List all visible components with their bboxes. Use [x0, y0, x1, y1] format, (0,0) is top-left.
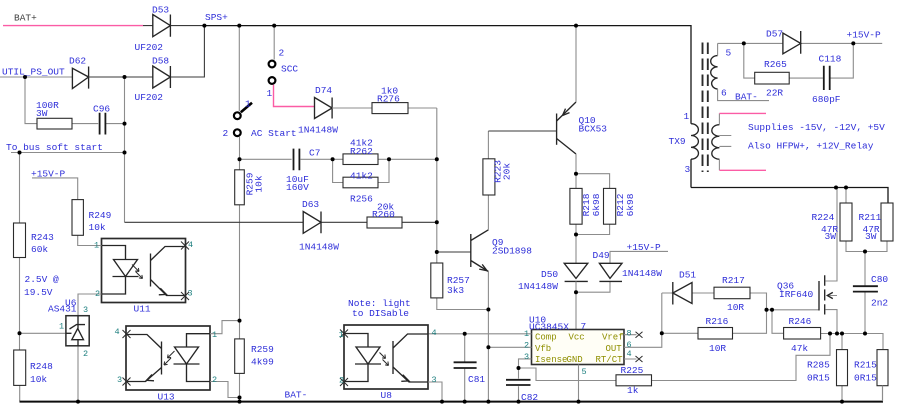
svg-text:1N4148W: 1N4148W	[518, 281, 558, 292]
svg-text:UF202: UF202	[135, 92, 164, 103]
svg-text:R211: R211	[859, 212, 882, 223]
svg-text:BAT+: BAT+	[14, 13, 37, 24]
svg-text:BCX53: BCX53	[579, 124, 608, 135]
svg-text:4: 4	[188, 240, 193, 250]
svg-text:3: 3	[685, 164, 691, 175]
svg-text:1: 1	[59, 322, 64, 332]
svg-text:2: 2	[279, 48, 285, 59]
svg-text:3: 3	[432, 375, 437, 385]
svg-text:6k98: 6k98	[625, 193, 636, 216]
svg-text:AS431: AS431	[48, 304, 77, 315]
svg-text:U8: U8	[381, 390, 393, 401]
svg-text:C7: C7	[309, 148, 320, 159]
svg-text:D49: D49	[593, 250, 610, 261]
svg-text:20k: 20k	[502, 163, 513, 180]
svg-text:D63: D63	[302, 199, 319, 210]
svg-text:UC3845X: UC3845X	[529, 322, 569, 333]
svg-text:1: 1	[267, 88, 273, 99]
svg-text:R249: R249	[89, 210, 112, 221]
svg-text:D62: D62	[69, 56, 86, 67]
svg-text:8: 8	[627, 329, 632, 339]
svg-text:Isense: Isense	[535, 355, 567, 365]
svg-text:C82: C82	[521, 392, 538, 403]
svg-text:U13: U13	[158, 392, 175, 403]
svg-text:60k: 60k	[31, 244, 48, 255]
svg-text:2.5V @: 2.5V @	[25, 274, 60, 285]
svg-text:4: 4	[115, 327, 120, 337]
svg-text:1: 1	[339, 330, 344, 340]
svg-text:UTIL_PS_OUT: UTIL_PS_OUT	[2, 67, 65, 78]
svg-text:D58: D58	[152, 56, 169, 67]
svg-text:R243: R243	[31, 232, 54, 243]
svg-text:0R15: 0R15	[854, 373, 877, 384]
svg-text:5: 5	[582, 367, 587, 377]
svg-text:IRF640: IRF640	[779, 289, 814, 300]
svg-text:D50: D50	[541, 269, 558, 280]
svg-text:D51: D51	[679, 270, 696, 281]
svg-text:+15V-P: +15V-P	[31, 169, 66, 180]
svg-text:6k98: 6k98	[591, 193, 602, 216]
svg-text:R276: R276	[377, 94, 400, 105]
svg-text:RT/CT: RT/CT	[596, 355, 624, 365]
svg-text:2: 2	[223, 128, 229, 139]
svg-text:2: 2	[339, 376, 344, 386]
svg-text:22R: 22R	[766, 88, 783, 99]
svg-text:C81: C81	[468, 374, 485, 385]
svg-text:R260: R260	[372, 209, 395, 220]
svg-text:10k: 10k	[89, 222, 106, 233]
svg-text:1: 1	[684, 111, 690, 122]
svg-text:R216: R216	[706, 316, 729, 327]
svg-text:6: 6	[721, 88, 727, 99]
svg-text:1N4148W: 1N4148W	[298, 125, 338, 136]
svg-text:10k: 10k	[254, 175, 265, 192]
svg-text:3k3: 3k3	[447, 285, 464, 296]
svg-text:3: 3	[188, 289, 193, 299]
svg-text:C80: C80	[871, 274, 888, 285]
svg-text:2: 2	[524, 341, 529, 351]
svg-text:R225: R225	[621, 365, 644, 376]
svg-text:1N4148W: 1N4148W	[622, 268, 662, 279]
svg-text:19.5V: 19.5V	[24, 287, 53, 298]
svg-text:Vfb: Vfb	[535, 344, 551, 354]
svg-text:680pF: 680pF	[812, 94, 841, 105]
svg-text:R256: R256	[350, 194, 373, 205]
svg-text:To bus soft start: To bus soft start	[6, 142, 103, 153]
svg-text:1k: 1k	[627, 385, 639, 396]
svg-text:2: 2	[212, 375, 217, 385]
svg-text:0R15: 0R15	[807, 373, 830, 384]
svg-text:41k2: 41k2	[350, 171, 373, 182]
svg-text:R215: R215	[854, 360, 877, 371]
svg-text:Supplies -15V, -12V, +5V: Supplies -15V, -12V, +5V	[748, 122, 885, 133]
svg-text:SPS+: SPS+	[205, 12, 228, 23]
svg-text:R246: R246	[789, 316, 812, 327]
svg-text:R285: R285	[807, 360, 830, 371]
svg-text:+15V-P: +15V-P	[627, 242, 662, 253]
svg-text:3: 3	[83, 305, 88, 315]
svg-text:R224: R224	[812, 212, 835, 223]
svg-text:+15V-P: +15V-P	[847, 30, 882, 41]
svg-text:AC Start: AC Start	[251, 128, 297, 139]
svg-text:4: 4	[627, 349, 632, 359]
svg-text:C96: C96	[93, 104, 110, 115]
svg-text:4k99: 4k99	[251, 357, 274, 368]
svg-text:D57: D57	[766, 29, 783, 40]
svg-text:2SD1898: 2SD1898	[492, 246, 532, 257]
svg-text:D53: D53	[152, 5, 169, 16]
svg-text:3: 3	[117, 375, 122, 385]
svg-text:2: 2	[95, 289, 100, 299]
svg-text:2n2: 2n2	[871, 298, 888, 309]
svg-text:Vcc: Vcc	[569, 333, 585, 343]
svg-text:3W: 3W	[865, 231, 877, 242]
svg-text:R248: R248	[30, 361, 53, 372]
svg-text:5: 5	[726, 48, 732, 59]
svg-text:1: 1	[245, 99, 251, 110]
svg-text:SCC: SCC	[281, 64, 298, 75]
svg-text:3W: 3W	[825, 231, 837, 242]
svg-text:R265: R265	[764, 59, 787, 70]
svg-text:1: 1	[94, 241, 99, 251]
svg-text:Vref: Vref	[602, 333, 624, 343]
svg-text:C118: C118	[819, 54, 842, 65]
svg-text:D74: D74	[315, 85, 332, 96]
svg-text:R217: R217	[722, 275, 745, 286]
svg-text:TX9: TX9	[669, 136, 686, 147]
svg-text:3: 3	[524, 352, 529, 362]
svg-text:R259: R259	[251, 344, 274, 355]
svg-text:4: 4	[432, 328, 437, 338]
svg-text:160V: 160V	[286, 182, 309, 193]
svg-text:R262: R262	[350, 146, 373, 157]
svg-text:10R: 10R	[727, 302, 744, 313]
svg-text:7: 7	[581, 321, 587, 332]
svg-text:1: 1	[524, 329, 529, 339]
svg-text:10k: 10k	[30, 374, 47, 385]
svg-text:47k: 47k	[791, 343, 808, 354]
svg-text:1N4148W: 1N4148W	[299, 242, 339, 253]
svg-text:BAT-: BAT-	[735, 92, 758, 103]
svg-text:U11: U11	[134, 304, 151, 315]
svg-text:GND: GND	[567, 355, 583, 365]
svg-text:10R: 10R	[709, 343, 726, 354]
svg-text:OUT: OUT	[606, 344, 623, 354]
svg-text:BAT-: BAT-	[285, 390, 308, 401]
svg-text:UF202: UF202	[135, 42, 164, 53]
svg-text:2: 2	[83, 349, 88, 359]
svg-text:3W: 3W	[36, 108, 48, 119]
svg-text:1: 1	[212, 330, 217, 340]
svg-text:to DISable: to DISable	[352, 308, 409, 319]
svg-text:Comp: Comp	[535, 333, 557, 343]
svg-text:Also HFPW+, +12V_Relay: Also HFPW+, +12V_Relay	[748, 141, 874, 152]
